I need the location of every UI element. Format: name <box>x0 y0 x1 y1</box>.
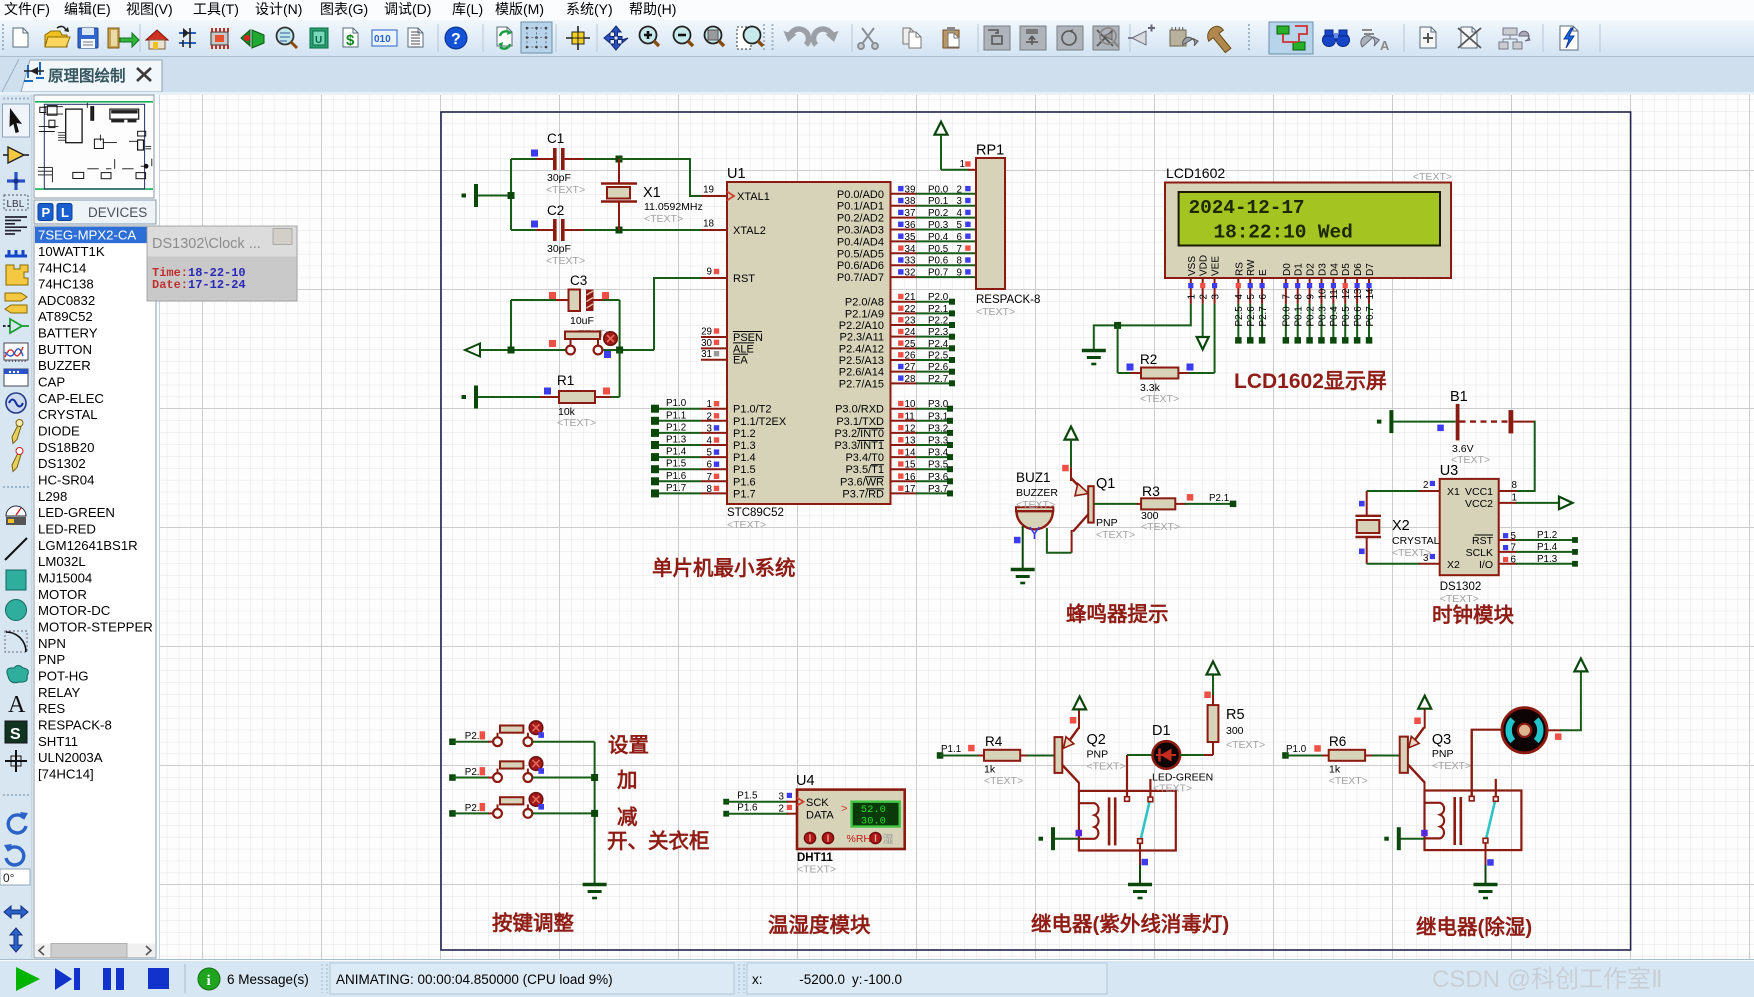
humidity sensor U4 DHT11 <box>796 773 905 876</box>
wire RL1 common to ground <box>1140 843 1148 884</box>
svg-text:6: 6 <box>707 460 713 471</box>
pin 5 P1.4 wire <box>651 447 756 465</box>
svg-text:36: 36 <box>905 220 916 231</box>
svg-text:BATTERY: BATTERY <box>38 326 98 341</box>
svg-text:AT89C52: AT89C52 <box>38 309 93 324</box>
svg-text:39: 39 <box>905 184 916 195</box>
svg-text:D0: D0 <box>1282 263 1293 276</box>
net P1.1 input <box>937 744 979 759</box>
wire battery to U3 VCC1 <box>1499 422 1535 491</box>
microcontroller U1 STC89C52 <box>727 166 891 531</box>
U3 pin 6 net P1.3 <box>1499 554 1578 567</box>
svg-text:P2.5: P2.5 <box>1234 306 1245 327</box>
svg-text:P2.3: P2.3 <box>928 327 949 338</box>
power terminal VCC above RP1 <box>935 122 948 170</box>
LCD pin 2 VDD <box>1198 255 1209 304</box>
LCD pin 10 D3 <box>1317 263 1328 344</box>
svg-text:P0.5/AD5: P0.5/AD5 <box>837 248 884 260</box>
svg-text:12: 12 <box>905 423 916 434</box>
wire ground to C1/C2 node <box>478 195 511 197</box>
svg-text:<TEXT>: <TEXT> <box>557 417 596 429</box>
svg-text:30pF: 30pF <box>547 243 571 255</box>
LCD pin 3 VEE <box>1210 256 1221 304</box>
svg-text:ULN2003A: ULN2003A <box>38 750 103 765</box>
wire RL2 common to ground <box>1486 843 1494 884</box>
push button SW3 row <box>449 793 594 818</box>
svg-text:30pF: 30pF <box>547 172 571 184</box>
svg-text:P1.4: P1.4 <box>1537 542 1558 553</box>
svg-text:S: S <box>10 726 21 743</box>
svg-text:11.0592MHz: 11.0592MHz <box>644 201 703 213</box>
svg-text:x:: x: <box>752 972 763 987</box>
svg-text:DIODE: DIODE <box>38 424 80 439</box>
svg-text:P2.6: P2.6 <box>928 362 949 373</box>
svg-text:C1: C1 <box>547 131 564 146</box>
junction <box>616 347 623 354</box>
svg-text:i: i <box>207 973 211 989</box>
svg-text:25: 25 <box>905 339 916 350</box>
svg-text:Q1: Q1 <box>1096 476 1115 492</box>
svg-text:8: 8 <box>957 256 963 267</box>
svg-text:A: A <box>1380 38 1390 53</box>
svg-text:4: 4 <box>1234 294 1245 300</box>
svg-text:X1: X1 <box>1447 486 1460 498</box>
svg-text:14: 14 <box>1365 288 1376 299</box>
wire P1.6 to DATA <box>723 803 797 817</box>
svg-text:4: 4 <box>957 208 963 219</box>
LCD pin 11 D4 <box>1329 263 1340 344</box>
svg-text:11: 11 <box>1329 289 1340 299</box>
svg-text:P0.2: P0.2 <box>928 208 948 219</box>
pin 3 P1.2 wire <box>651 422 756 440</box>
svg-text:POT-HG: POT-HG <box>38 669 89 684</box>
svg-text:LCD1602: LCD1602 <box>1166 165 1225 181</box>
wire to C1 <box>511 158 553 160</box>
LED D1 LED-GREEN <box>1127 723 1213 795</box>
svg-text:按键调整: 按键调整 <box>492 911 574 935</box>
pin 7 P1.6 wire <box>651 471 756 489</box>
svg-text:21: 21 <box>905 292 916 303</box>
svg-text:P0.7/AD7: P0.7/AD7 <box>837 272 884 284</box>
svg-text:-5200.0: -5200.0 <box>799 972 845 987</box>
resistor R6 1k <box>1322 734 1400 787</box>
ground terminal near R1 <box>462 386 479 409</box>
svg-text:蜂鸣器提示: 蜂鸣器提示 <box>1066 602 1169 626</box>
svg-text:DS1302: DS1302 <box>38 456 86 471</box>
svg-text:29: 29 <box>701 327 712 338</box>
LCD pin 14 D7 <box>1365 263 1376 344</box>
svg-text:15: 15 <box>905 460 916 471</box>
svg-text:MOTOR-STEPPER: MOTOR-STEPPER <box>38 620 153 635</box>
svg-text:ANIMATING: 00:00:04.850000 (CP: ANIMATING: 00:00:04.850000 (CPU load 9%) <box>336 972 613 987</box>
svg-text:P1.2: P1.2 <box>666 422 686 433</box>
svg-text:12: 12 <box>1341 289 1352 300</box>
relay RL2 contacts <box>1469 730 1498 843</box>
svg-text:30.0: 30.0 <box>861 816 886 828</box>
svg-text:13: 13 <box>905 436 916 447</box>
svg-text:P3.0: P3.0 <box>928 399 949 410</box>
svg-text:P3.6: P3.6 <box>928 472 949 483</box>
svg-text:P2.: P2. <box>465 767 480 778</box>
ground <box>583 885 607 899</box>
svg-text:<TEXT>: <TEXT> <box>1087 761 1126 773</box>
svg-text:RW: RW <box>1246 259 1257 276</box>
LCD pin 9 D2 <box>1305 263 1316 344</box>
pin 8 P1.7 wire <box>651 483 756 501</box>
transistor Q3 PNP <box>1400 709 1471 791</box>
svg-text:<TEXT>: <TEXT> <box>546 255 585 267</box>
svg-text:P1.1: P1.1 <box>666 410 686 421</box>
svg-text:<TEXT>: <TEXT> <box>727 519 766 531</box>
wire node to pin XTAL1 <box>619 159 727 196</box>
svg-text:设计(N): 设计(N) <box>255 1 302 17</box>
svg-text:P3.7/RD: P3.7/RD <box>842 488 884 500</box>
svg-text:23: 23 <box>905 316 916 327</box>
svg-text:P3.7: P3.7 <box>928 484 948 495</box>
junction <box>508 192 515 199</box>
svg-text:继电器(紫外线消毒灯): 继电器(紫外线消毒灯) <box>1031 912 1229 936</box>
svg-text:8: 8 <box>1294 294 1305 300</box>
power terminal (down arrow) for VDD <box>1197 304 1209 350</box>
svg-text:视图(V): 视图(V) <box>126 1 173 17</box>
svg-text:X1: X1 <box>643 185 661 201</box>
svg-text:P2.0/A8: P2.0/A8 <box>845 297 884 309</box>
svg-text:P3.5: P3.5 <box>928 460 949 471</box>
svg-text:A: A <box>8 692 26 718</box>
input terminal arrow <box>465 344 480 357</box>
svg-text:P0.0: P0.0 <box>928 184 949 195</box>
net P1.0 input <box>1282 744 1323 759</box>
svg-text:P0.0: P0.0 <box>1282 306 1293 327</box>
resistor R4 1k <box>978 734 1055 787</box>
svg-text:19: 19 <box>703 185 714 196</box>
svg-text:1k: 1k <box>984 764 996 776</box>
svg-text:11: 11 <box>905 411 915 422</box>
svg-text:5: 5 <box>1511 531 1517 542</box>
svg-text:<TEXT>: <TEXT> <box>1226 739 1265 751</box>
svg-text:湿: 湿 <box>883 833 894 846</box>
resistor R5 300 (vertical) <box>1180 673 1265 755</box>
svg-text:P1.3: P1.3 <box>1537 554 1558 565</box>
svg-text:7: 7 <box>1282 294 1293 299</box>
svg-text:P2.7/A15: P2.7/A15 <box>839 378 884 390</box>
svg-text:Date:17-12-24: Date:17-12-24 <box>152 278 246 292</box>
svg-text:<TEXT>: <TEXT> <box>1413 171 1452 183</box>
svg-text:<TEXT>: <TEXT> <box>976 306 1015 318</box>
resistor R2 3.3k <box>1127 352 1215 405</box>
svg-text:I/O: I/O <box>1479 559 1493 571</box>
clock chip U3 DS1302 <box>1440 463 1518 605</box>
svg-text:P2.1: P2.1 <box>1209 493 1229 504</box>
svg-text:P0.3: P0.3 <box>928 220 949 231</box>
svg-text:D2: D2 <box>1306 263 1317 276</box>
pin 24 P2.3 net stub <box>840 327 955 344</box>
wire C1 to XTAL1 node <box>565 158 619 160</box>
svg-text:VCC1: VCC1 <box>1465 486 1493 498</box>
svg-text:10: 10 <box>905 399 916 410</box>
svg-text:CAP-ELEC: CAP-ELEC <box>38 391 104 406</box>
svg-text:9: 9 <box>957 268 962 279</box>
svg-text:文件(F): 文件(F) <box>4 1 50 17</box>
svg-text:C3: C3 <box>570 273 587 288</box>
transistor Q1 PNP <box>1062 465 1135 553</box>
capacitor C3 (electrolytic) <box>511 273 620 340</box>
motor M1 <box>1472 708 1547 796</box>
power terminal above Q2 <box>1073 696 1086 709</box>
pin 27 P2.6 net stub <box>839 362 955 379</box>
pin 16 P3.6 net stub <box>840 472 953 489</box>
svg-text:NPN: NPN <box>38 636 66 651</box>
svg-text:4: 4 <box>707 436 713 447</box>
svg-text:SCK: SCK <box>806 797 829 809</box>
svg-text:%RH: %RH <box>847 833 872 845</box>
svg-text:10uF: 10uF <box>570 315 594 327</box>
svg-text:52.0: 52.0 <box>861 804 886 816</box>
svg-text:P: P <box>42 205 51 220</box>
svg-text:R2: R2 <box>1140 352 1157 367</box>
LCD pin 1 VSS <box>1187 256 1198 304</box>
svg-text:DEVICES: DEVICES <box>88 205 147 220</box>
svg-text:D7: D7 <box>1365 263 1376 276</box>
svg-text:P2.1/A9: P2.1/A9 <box>845 308 884 320</box>
svg-text:P3.0/RXD: P3.0/RXD <box>835 404 884 416</box>
svg-text:系统(Y): 系统(Y) <box>566 1 613 17</box>
power terminal VCC2 output <box>1499 497 1573 510</box>
svg-text:RELAY: RELAY <box>38 685 80 700</box>
svg-text:[74HC14]: [74HC14] <box>38 767 94 782</box>
svg-text:PNP: PNP <box>1432 748 1454 760</box>
buzzer BUZ1 <box>1016 470 1058 539</box>
svg-text:P0.3: P0.3 <box>1317 306 1328 327</box>
svg-text:6: 6 <box>957 232 963 243</box>
svg-text:P0.6: P0.6 <box>1353 306 1364 327</box>
svg-text:P0.1: P0.1 <box>1294 306 1305 326</box>
svg-text:RESPACK-8: RESPACK-8 <box>38 718 112 733</box>
svg-text:时钟模块: 时钟模块 <box>1432 603 1514 627</box>
svg-text:XTAL2: XTAL2 <box>733 225 766 237</box>
power terminal above R5 <box>1207 662 1220 675</box>
svg-text:DATA: DATA <box>806 810 834 822</box>
svg-text:RP1: RP1 <box>976 143 1004 159</box>
svg-text:13: 13 <box>1353 288 1364 299</box>
svg-text:Q3: Q3 <box>1432 732 1451 748</box>
svg-text:LGM12641BS1R: LGM12641BS1R <box>38 538 138 553</box>
svg-text:5: 5 <box>707 448 713 459</box>
svg-text:<TEXT>: <TEXT> <box>1140 393 1179 405</box>
svg-text:P2.7: P2.7 <box>928 374 948 385</box>
svg-text:SHT11: SHT11 <box>38 734 78 749</box>
LCD pin 8 D1 <box>1294 263 1305 344</box>
svg-text:27: 27 <box>905 362 916 373</box>
svg-text:<TEXT>: <TEXT> <box>1329 775 1368 787</box>
pin 21 P2.0 net stub <box>845 292 955 309</box>
svg-text:P2.5/A13: P2.5/A13 <box>839 355 884 367</box>
ground terminal for RL2 coil <box>1384 827 1427 850</box>
pin 18 XTAL2 <box>703 219 766 238</box>
svg-text:D4: D4 <box>1329 263 1340 276</box>
LCD pin 5 RW <box>1246 259 1257 344</box>
svg-text:24: 24 <box>905 327 916 338</box>
pin 10 P3.0 net stub <box>835 399 953 416</box>
ground terminal for RL1 coil <box>1039 827 1083 850</box>
svg-text:<TEXT>: <TEXT> <box>1016 499 1055 511</box>
wire motor to power <box>1547 671 1581 740</box>
wire C2 to XTAL2 pin <box>565 229 727 231</box>
svg-text:P2.1: P2.1 <box>928 304 948 315</box>
wire to C2 <box>511 229 553 231</box>
svg-text:<TEXT>: <TEXT> <box>1432 760 1471 772</box>
svg-text:LCD1602显示屏: LCD1602显示屏 <box>1234 370 1387 393</box>
svg-text:P1.2: P1.2 <box>1537 530 1557 541</box>
svg-text:CRYSTAL: CRYSTAL <box>38 407 98 422</box>
svg-text:MJ15004: MJ15004 <box>38 571 92 586</box>
svg-text:<TEXT>: <TEXT> <box>1141 521 1180 533</box>
svg-text:P3.1/TXD: P3.1/TXD <box>836 416 884 428</box>
svg-text:D6: D6 <box>1353 263 1364 276</box>
svg-text:P1.4: P1.4 <box>666 447 687 458</box>
svg-text:P1.1: P1.1 <box>941 744 961 755</box>
LCD pin 7 D0 <box>1282 263 1293 344</box>
svg-text:P1.0/T2: P1.0/T2 <box>733 404 772 416</box>
svg-text:P2.6: P2.6 <box>1246 306 1257 327</box>
svg-text:P0.0/AD0: P0.0/AD0 <box>837 189 884 201</box>
svg-text:P0.7: P0.7 <box>1365 306 1376 326</box>
svg-text:2: 2 <box>707 411 712 422</box>
svg-text:R4: R4 <box>985 734 1003 749</box>
svg-text:P1.6: P1.6 <box>733 476 756 488</box>
svg-text:P1.0: P1.0 <box>1286 744 1307 755</box>
svg-text:编辑(E): 编辑(E) <box>64 1 111 17</box>
svg-text:CSDN @科创工作室Ⅱ: CSDN @科创工作室Ⅱ <box>1432 966 1663 993</box>
LCD display LCD1602 <box>1165 165 1452 278</box>
svg-text:工具(T): 工具(T) <box>193 1 239 17</box>
pin 14 P3.4 net stub <box>845 448 953 465</box>
crystal X1 <box>601 159 703 230</box>
svg-text:P2.2/A10: P2.2/A10 <box>839 320 884 332</box>
U3 pin 7 net P1.4 <box>1499 542 1578 555</box>
svg-text:P2.7: P2.7 <box>1258 306 1269 326</box>
svg-text:P3.2/INT0: P3.2/INT0 <box>834 428 884 440</box>
svg-text:010: 010 <box>374 34 391 45</box>
resistor pack RP1 RESPACK-8 <box>976 143 1040 319</box>
svg-text:VEE: VEE <box>1211 256 1222 276</box>
relay RL1 contacts <box>1125 755 1153 843</box>
svg-text:设置: 设置 <box>608 734 649 757</box>
svg-text:SCLK: SCLK <box>1466 547 1493 559</box>
pin 9 RST <box>707 267 756 286</box>
svg-text:R6: R6 <box>1329 734 1346 749</box>
svg-text:P2.4: P2.4 <box>928 339 949 350</box>
svg-text:P1.5: P1.5 <box>733 464 756 476</box>
relay RL1 <box>1079 791 1176 851</box>
svg-text:EA: EA <box>733 355 748 367</box>
svg-text:P1.0: P1.0 <box>666 398 687 409</box>
svg-text:300: 300 <box>1226 725 1244 737</box>
svg-text:7: 7 <box>707 472 712 483</box>
junction <box>508 347 515 354</box>
svg-text:库(L): 库(L) <box>452 1 483 17</box>
svg-text:LED-RED: LED-RED <box>38 522 96 537</box>
pin 25 P2.4 net stub <box>839 339 955 356</box>
svg-text:35: 35 <box>905 232 916 243</box>
svg-text:BUZZER: BUZZER <box>1016 487 1058 499</box>
svg-text:U3: U3 <box>1440 463 1459 479</box>
svg-text:X2: X2 <box>1392 518 1410 534</box>
wire C1/C2 left vertical <box>510 159 512 230</box>
svg-text:原理图绘制: 原理图绘制 <box>48 66 126 85</box>
ground terminal near C1/C2 <box>462 184 479 207</box>
pin 2 P1.1 wire <box>651 410 787 428</box>
svg-text:?: ? <box>451 31 461 48</box>
svg-text:6 Message(s): 6 Message(s) <box>227 972 309 987</box>
junction <box>616 156 623 163</box>
svg-text:<TEXT>: <TEXT> <box>546 184 585 196</box>
svg-text:DS1302: DS1302 <box>1440 581 1482 593</box>
svg-text:E: E <box>1258 269 1269 276</box>
svg-text:P1.2: P1.2 <box>733 428 756 440</box>
svg-text:<TEXT>: <TEXT> <box>1392 547 1431 559</box>
svg-text:16: 16 <box>905 472 916 483</box>
svg-text:CRYSTAL: CRYSTAL <box>1392 535 1440 547</box>
schematic sheet border <box>441 112 1631 950</box>
wire buttons common bus <box>594 742 596 884</box>
svg-text:P2.6/A14: P2.6/A14 <box>839 367 884 379</box>
pin 36 P0.3 wire to RP1 pin 5 <box>837 220 976 237</box>
svg-text:P1.5: P1.5 <box>737 791 758 802</box>
svg-text:CAP: CAP <box>38 375 65 390</box>
svg-text:y:: y: <box>852 972 863 987</box>
svg-text:XTAL1: XTAL1 <box>737 191 770 203</box>
svg-text:P1.4: P1.4 <box>733 452 756 464</box>
push button RST <box>549 332 617 359</box>
pin 38 P0.1 wire to RP1 pin 3 <box>837 196 976 213</box>
svg-text:0°: 0° <box>3 871 15 885</box>
svg-text:2: 2 <box>778 803 783 814</box>
ground <box>1082 351 1106 365</box>
svg-text:7: 7 <box>1511 543 1516 554</box>
svg-text:5: 5 <box>1246 294 1257 300</box>
power terminal above motor <box>1574 658 1587 671</box>
pin 12 P3.2 net stub <box>834 423 953 440</box>
pin 23 P2.2 net stub <box>839 316 955 333</box>
svg-text:继电器(除湿): 继电器(除湿) <box>1416 915 1532 939</box>
svg-text:P2.2: P2.2 <box>928 316 948 327</box>
svg-text:2: 2 <box>957 184 962 195</box>
svg-text:P1.6: P1.6 <box>666 471 687 482</box>
wire VEE down <box>1214 304 1216 373</box>
svg-text:P3.4: P3.4 <box>928 448 949 459</box>
pin 1 P1.0 wire <box>651 398 772 416</box>
power terminal above Q3 <box>1418 696 1431 709</box>
svg-text:31: 31 <box>701 349 712 360</box>
svg-text:加: 加 <box>616 769 638 792</box>
junction <box>591 774 598 781</box>
svg-text:2: 2 <box>1423 480 1428 491</box>
svg-text:开、关衣柜: 开、关衣柜 <box>607 829 710 853</box>
svg-text:图表(G): 图表(G) <box>320 1 368 17</box>
ground <box>1474 885 1498 899</box>
svg-text:P0.7: P0.7 <box>928 268 948 279</box>
capacitor C1 <box>531 131 585 196</box>
svg-text:C2: C2 <box>547 203 564 218</box>
svg-text:7SEG-MPX2-CA: 7SEG-MPX2-CA <box>38 228 136 243</box>
svg-text:6: 6 <box>1258 294 1269 300</box>
svg-text:VCC2: VCC2 <box>1465 498 1493 510</box>
wire power to RP1 pin 1 <box>941 159 976 170</box>
svg-text:MOTOR-DC: MOTOR-DC <box>38 603 111 618</box>
svg-text:HC-SR04: HC-SR04 <box>38 473 94 488</box>
ground terminal near battery B1 <box>1377 410 1394 433</box>
